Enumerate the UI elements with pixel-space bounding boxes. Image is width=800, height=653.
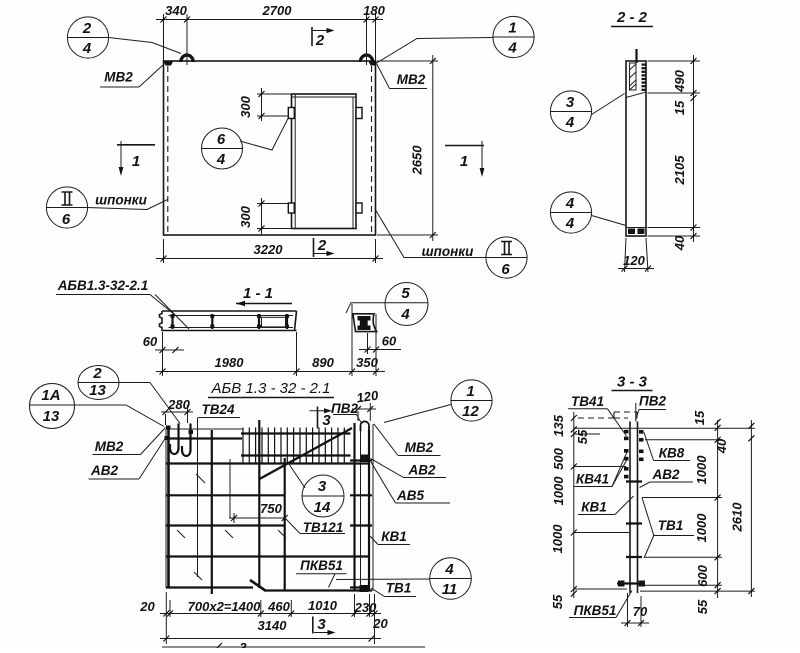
label PV2 top: [331, 401, 361, 423]
svg-text:1: 1: [460, 153, 468, 170]
bottom dimension line 3220: [163, 239, 165, 263]
right inner dim chain: [692, 410, 729, 614]
layout bottom dim chain: [139, 592, 388, 644]
beam inner box: [262, 317, 286, 327]
loop axis line left: [186, 14, 188, 65]
svg-text:3: 3: [322, 412, 331, 429]
weld dot left edge: [165, 436, 169, 440]
svg-text:3 - 3: 3 - 3: [617, 374, 648, 391]
svg-text:МВ2: МВ2: [95, 439, 124, 454]
weld dot hook: [189, 430, 194, 434]
dim 60 right (section 1-1): [359, 333, 401, 354]
svg-text:20: 20: [372, 616, 388, 631]
callout 4/11: [336, 558, 471, 600]
svg-text:5: 5: [401, 285, 410, 302]
right corner bar group: [350, 421, 372, 592]
svg-text:КВ41: КВ41: [576, 472, 609, 487]
svg-text:3220: 3220: [254, 242, 284, 257]
KV41 rebar dots left: [624, 430, 629, 479]
protruding bar top: [635, 49, 637, 63]
panel outline: [164, 61, 376, 235]
callout 3/14: [287, 461, 344, 517]
svg-text:КВ1: КВ1: [581, 500, 607, 515]
svg-text:13: 13: [89, 382, 106, 399]
svg-text:350: 350: [356, 355, 378, 370]
bottom anchor plate: [626, 228, 646, 235]
svg-text:шпонки: шпонки: [95, 193, 147, 208]
key bump top-right: [369, 62, 378, 66]
svg-text:1: 1: [466, 383, 474, 400]
svg-text:2650: 2650: [410, 145, 425, 176]
top dimension line: [156, 19, 383, 21]
svg-text:1000: 1000: [694, 513, 709, 543]
section 2-2 right dim chain: [648, 55, 701, 251]
svg-text:4: 4: [400, 306, 410, 323]
section marker 3 bottom: [313, 616, 336, 635]
svg-text:55: 55: [575, 429, 590, 444]
embed tab lower-left: [288, 203, 294, 213]
section 2-2 bottom dim 120: [618, 238, 654, 272]
svg-text:890: 890: [312, 355, 334, 370]
label TV121: [286, 519, 346, 536]
svg-text:280: 280: [167, 397, 190, 412]
svg-text:1000: 1000: [550, 524, 565, 554]
anchor hook bar left 2: [182, 424, 191, 457]
svg-text:6: 6: [62, 211, 71, 228]
opening inner line right: [352, 97, 354, 229]
embed tab upper-right: [356, 108, 362, 119]
svg-text:2: 2: [82, 20, 92, 37]
svg-text:2700: 2700: [262, 3, 293, 18]
section marker 2 top: [312, 27, 335, 49]
label KV8: [644, 433, 690, 461]
mesh vertical wires: [243, 428, 344, 463]
svg-text:230: 230: [354, 600, 377, 615]
svg-text:3: 3: [317, 616, 326, 633]
anchor hook bar left 1: [170, 424, 179, 455]
opening inner line top: [292, 96, 357, 98]
svg-text:4: 4: [444, 561, 454, 578]
svg-text:2610: 2610: [730, 502, 745, 533]
rebar horizontal top: [166, 437, 242, 439]
dim 120 (top right of layout): [352, 388, 380, 421]
svg-text:490: 490: [672, 69, 687, 92]
hidden loop dashed: [573, 412, 637, 418]
KV8 rebar dots right: [639, 430, 644, 461]
svg-text:1000: 1000: [551, 476, 566, 506]
svg-text:ТВ41: ТВ41: [571, 394, 604, 409]
svg-text:55: 55: [695, 599, 710, 614]
label PKV51 section: [569, 591, 632, 619]
beam stirrup 2: [210, 314, 214, 329]
right outer dim chain 2610: [730, 420, 755, 597]
keyway dashed line right: [371, 66, 373, 233]
center mark and dim 750: [229, 501, 288, 523]
title ABV 1.3-32-2.1: [208, 380, 334, 398]
svg-text:60: 60: [143, 334, 158, 349]
svg-text:МВ2: МВ2: [104, 70, 133, 85]
bottom anchor dots: [618, 581, 625, 587]
svg-text:ТВ121: ТВ121: [303, 520, 344, 535]
title 2-2: [611, 9, 653, 27]
svg-text:3: 3: [318, 478, 327, 495]
svg-text:МВ2: МВ2: [397, 72, 426, 87]
svg-text:460: 460: [267, 599, 290, 614]
svg-text:3: 3: [239, 640, 247, 648]
rebar horizontal 3: [166, 494, 285, 496]
svg-text:2: 2: [317, 237, 327, 254]
callout 5/4: [346, 283, 428, 326]
svg-text:600: 600: [695, 564, 710, 586]
svg-text:15: 15: [672, 100, 687, 115]
svg-text:ПВ2: ПВ2: [331, 401, 358, 416]
svg-text:4: 4: [565, 114, 575, 131]
label KV1 section: [578, 496, 634, 515]
callout 3/4: [550, 91, 624, 132]
svg-text:60: 60: [382, 334, 397, 349]
section 1-1 main dim chain: [156, 304, 385, 376]
rebar vertical left edge: [167, 429, 170, 588]
label AV2 section: [640, 467, 694, 488]
svg-text:шпонки: шпонки: [422, 244, 474, 259]
beam body: [160, 311, 297, 331]
svg-text:20: 20: [139, 599, 155, 614]
svg-text:700х2=1400: 700х2=1400: [188, 599, 261, 614]
callout 1/4: [377, 16, 535, 63]
extension thin vertical for dim 750: [229, 459, 231, 518]
svg-text:КВ8: КВ8: [659, 446, 685, 461]
title 1-1: [236, 285, 292, 306]
dim 60 left (section 1-1): [143, 334, 184, 353]
embed tab lower-right: [356, 203, 362, 213]
beam right end piece: [353, 314, 377, 332]
callout 6/4: [202, 117, 290, 170]
svg-text:2105: 2105: [672, 155, 687, 186]
svg-text:2: 2: [315, 32, 325, 49]
grid line top (level 15): [574, 427, 755, 429]
svg-text:1000: 1000: [694, 455, 709, 485]
column outline: [626, 61, 646, 236]
svg-text:12: 12: [462, 403, 479, 420]
left grid lines: [574, 434, 629, 589]
callout 2/4: [67, 17, 181, 58]
svg-text:1980: 1980: [215, 355, 245, 370]
weld dot top-left corner: [166, 426, 171, 430]
section marker 1 left: [117, 141, 155, 176]
label TV1 layout: [371, 581, 416, 597]
label KV1: [370, 529, 410, 545]
svg-text:13: 13: [43, 408, 60, 425]
beam stirrup 1: [171, 314, 175, 329]
svg-text:ТВ1: ТВ1: [386, 581, 412, 596]
svg-text:АВ2: АВ2: [90, 463, 118, 478]
dim 300 top of opening: [238, 88, 292, 121]
svg-text:АВ2: АВ2: [651, 467, 679, 482]
top rebar comb: [642, 64, 647, 91]
mesh PV2 top bars: [241, 434, 351, 456]
left dim chain line: [550, 412, 590, 609]
svg-text:АВ5: АВ5: [396, 488, 424, 503]
rebar horizontal 5: [166, 555, 369, 557]
rebar horizontal 2: [166, 462, 369, 464]
bar outline: [630, 422, 638, 594]
svg-text:6: 6: [217, 131, 226, 148]
svg-text:1А: 1А: [41, 387, 60, 404]
label PV2 section: [636, 394, 667, 421]
svg-text:120: 120: [623, 253, 645, 268]
svg-text:40: 40: [672, 235, 687, 251]
svg-text:4: 4: [565, 195, 575, 212]
svg-text:ПКВ51: ПКВ51: [300, 558, 343, 573]
svg-text:40: 40: [714, 438, 729, 454]
svg-text:500: 500: [551, 447, 566, 469]
panel thin outline: [166, 424, 373, 591]
svg-text:АВ2: АВ2: [407, 463, 435, 478]
label AV2 layout-left: [89, 438, 166, 479]
rebar vertical 3: [258, 420, 260, 588]
svg-text:55: 55: [550, 594, 565, 609]
svg-text:4: 4: [507, 40, 517, 57]
rebar horizontal bottom with jog: [166, 580, 372, 591]
svg-text:4: 4: [82, 40, 92, 57]
bar end hook marks: [177, 474, 286, 580]
callout 1A/13: [30, 384, 165, 429]
callout II/6 right with label shponki: [375, 209, 527, 278]
label MV2 layout-left: [93, 428, 166, 455]
loop wire sticking up: [635, 403, 637, 422]
label ABV1.3-32-2.1: [56, 278, 189, 329]
svg-text:ПВ2: ПВ2: [639, 394, 666, 409]
right grid lines: [640, 440, 755, 591]
svg-text:МВ2: МВ2: [405, 440, 434, 455]
top mesh zone hatch: [630, 63, 637, 90]
dim 70: [621, 593, 649, 627]
svg-text:340: 340: [165, 3, 187, 18]
section marker 2 bottom: [314, 237, 335, 257]
svg-text:3140: 3140: [258, 618, 288, 633]
svg-text:1010: 1010: [308, 598, 338, 613]
rebar horizontal 3 right segment: [350, 494, 372, 496]
dim 280: [161, 397, 193, 425]
svg-text:11: 11: [442, 581, 458, 598]
lifting loop left: [181, 55, 193, 62]
lifting loop right: [360, 55, 372, 62]
svg-text:70: 70: [633, 604, 648, 619]
svg-text:4: 4: [216, 151, 226, 168]
svg-text:120: 120: [356, 388, 380, 406]
label MB2 right: [377, 64, 428, 89]
overall bottom dim line (cropped): [162, 640, 425, 653]
svg-text:750: 750: [260, 501, 282, 516]
svg-text:135: 135: [551, 414, 566, 436]
svg-text:1: 1: [132, 153, 140, 170]
svg-text:АБВ1.3-32-2.1: АБВ1.3-32-2.1: [57, 278, 149, 293]
svg-text:КВ1: КВ1: [381, 529, 407, 544]
label PKV51: [296, 558, 347, 588]
dim 300 bottom of opening: [238, 198, 292, 234]
mesh zone bottom slope: [626, 92, 646, 98]
tie marks across bar: [626, 482, 642, 558]
svg-text:ТВ24: ТВ24: [201, 402, 235, 417]
svg-text:ТВ1: ТВ1: [658, 518, 684, 533]
label AV2 layout-right: [371, 459, 447, 478]
callout II/6 left with label shponki: [46, 187, 167, 228]
rebar horizontal 4: [166, 524, 285, 526]
svg-text:1 - 1: 1 - 1: [243, 285, 273, 302]
rebar vertical 4 (opening edge): [284, 458, 286, 591]
svg-text:1: 1: [508, 20, 516, 37]
layout dim 3140: [160, 618, 381, 642]
callout 2/13: [78, 365, 180, 424]
key bump top-left: [164, 62, 174, 66]
label TV1 section: [642, 498, 694, 559]
loop axis line right: [366, 14, 368, 65]
label TV41: [568, 394, 627, 436]
svg-text:180: 180: [363, 3, 385, 18]
title 3-3: [612, 374, 653, 391]
label TV24: [198, 402, 241, 577]
callout 1/12: [384, 380, 492, 423]
beam stirrup 3: [257, 314, 261, 329]
label MV2 layout-right: [374, 424, 441, 456]
rebar horizontal 4 right segment: [350, 524, 372, 526]
embed tab upper-left: [288, 108, 294, 119]
beam stirrup 4: [285, 314, 289, 329]
big diagonal bar: [260, 428, 353, 479]
keyway dashed line left: [167, 66, 169, 233]
svg-text:14: 14: [314, 499, 331, 516]
svg-text:300: 300: [238, 205, 253, 227]
svg-text:300: 300: [238, 95, 253, 117]
opening outline: [292, 94, 357, 229]
label MB2 left: [100, 65, 163, 87]
svg-text:15: 15: [692, 410, 707, 425]
svg-text:6: 6: [501, 261, 510, 278]
svg-text:2 - 2: 2 - 2: [616, 9, 648, 26]
label KV41: [574, 452, 627, 487]
callout 4/4: [550, 192, 626, 233]
opening inner line left: [294, 94, 296, 229]
svg-text:ПКВ51: ПКВ51: [574, 603, 617, 618]
rebar vertical 2: [211, 430, 213, 594]
svg-text:2: 2: [92, 365, 102, 382]
dim line 2650: [432, 55, 434, 241]
section marker 1 right: [445, 141, 484, 177]
right extension lines: [377, 60, 438, 62]
section marker 3 top: [310, 407, 333, 430]
label AV5: [371, 462, 450, 503]
svg-text:4: 4: [565, 215, 575, 232]
svg-text:АБВ 1.3 - 32 - 2.1: АБВ 1.3 - 32 - 2.1: [211, 380, 331, 397]
svg-text:3: 3: [566, 94, 575, 111]
